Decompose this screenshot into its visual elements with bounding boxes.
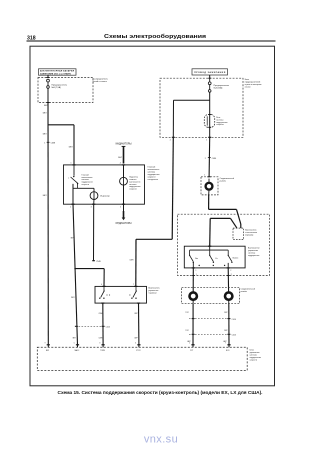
svg-text:БЕЛ: БЕЛ: [118, 157, 122, 159]
joint connector (dashed box with ring): [201, 177, 218, 195]
svg-text:ИНДИКАТОРЫ: ИНДИКАТОРЫ: [116, 142, 132, 145]
svg-text:(тормоза): (тормоза): [245, 234, 253, 236]
page header rule: [27, 40, 276, 42]
assembly exit ticks: [192, 275, 195, 277]
connector pair (dashed box): [182, 287, 240, 303]
fuse box No.8 (dashed, interior fuse/relay box): [38, 78, 93, 103]
svg-text:7: 7: [133, 284, 134, 286]
brake pedal switch (dashed box): [233, 228, 244, 239]
S3 switch COAST: [209, 255, 210, 256]
svg-text:ГОЛ: ГОЛ: [185, 330, 188, 332]
svg-text:1: 1: [196, 274, 197, 276]
battery feed label box (right): [192, 69, 228, 75]
svg-text:отсеке: отсеке: [245, 87, 251, 89]
S1 top terminal pin 4: [122, 164, 125, 166]
junction to control switch S2: [74, 268, 76, 270]
bus entry terminal 1: [47, 344, 50, 346]
svg-text:поддержания: поддержания: [248, 255, 259, 257]
connector C638 on feed wire: [47, 141, 50, 143]
svg-text:4: 4: [101, 284, 102, 286]
S2 switch right: [135, 286, 137, 290]
battery feed label box (left): [39, 69, 77, 75]
svg-text:2: 2: [170, 140, 171, 142]
bus entry terminal 5: [191, 344, 194, 346]
svg-text:№8 (7,5А): №8 (7,5А): [52, 86, 62, 89]
diagram outer frame: [30, 46, 275, 386]
connector line C414: [189, 318, 230, 320]
svg-text:ЗАЖИГАНИЕ (IG1 или START): ЗАЖИГАНИЕ (IG1 или START): [40, 72, 71, 75]
fuse box exit terminal: [47, 102, 50, 104]
svg-text:МАСС: МАСС: [75, 349, 81, 352]
bus entry terminal 3: [102, 344, 105, 346]
svg-text:Индикатор: Индикатор: [100, 195, 109, 197]
svg-text:ТОРМ: ТОРМ: [100, 350, 105, 352]
svg-text:ГОЛ: ГОЛ: [185, 312, 188, 314]
svg-text:2: 2: [189, 343, 190, 345]
svg-text:Схемы электрооборудования: Схемы электрооборудования: [104, 33, 206, 40]
svg-text:ВОЗ: ВОЗ: [226, 350, 229, 352]
bus entry terminal 2: [76, 344, 79, 346]
wires connector pair to control unit: [192, 304, 194, 345]
wires S3 to connector rings: [192, 268, 194, 293]
connector line C415: [76, 325, 104, 327]
svg-text:С414: С414: [232, 319, 236, 321]
svg-text:3: 3: [91, 206, 92, 208]
svg-text:ЗЕЛ: ЗЕЛ: [72, 337, 75, 339]
branch wire to main switch: [48, 124, 74, 126]
svg-text:цепей в салоне: цепей в салоне: [93, 80, 108, 83]
cruise control unit (dashed bus box): [37, 347, 247, 370]
S1 output wire down to control unit: [73, 204, 78, 345]
wire from label box to fuse box: [209, 75, 211, 78]
svg-text:ЗЕЛ: ЗЕЛ: [71, 297, 75, 299]
svg-text:2: 2: [70, 206, 71, 208]
svg-text:1: 1: [196, 270, 197, 272]
svg-text:9: 9: [45, 343, 46, 345]
svg-text:СИН: СИН: [129, 260, 134, 262]
svg-text:ПРОВОД ЗАЖИГАНИЯ: ПРОВОД ЗАЖИГАНИЯ: [194, 71, 226, 74]
main feed wire (left vertical): [47, 103, 49, 345]
fuse F4 (15A): [209, 78, 211, 82]
svg-text:5: 5: [120, 206, 121, 208]
svg-text:Схема 15. Система поддержания: Схема 15. Система поддержания скорости (…: [58, 390, 263, 396]
svg-text:СЕР: СЕР: [134, 337, 138, 339]
svg-text:СТОП: СТОП: [136, 350, 141, 352]
svg-text:УСТ: УСТ: [190, 350, 193, 352]
connector C486 tick: [208, 157, 211, 159]
branch wire inside fuse box: [209, 92, 211, 114]
svg-text:ИНДИКАТОРЫ: ИНДИКАТОРЫ: [116, 222, 132, 225]
svg-text:2: 2: [205, 158, 206, 160]
S1 bottom terminals: [71, 203, 74, 205]
svg-text:1: 1: [204, 175, 205, 177]
svg-text:6: 6: [135, 343, 136, 345]
fuse F4 terminal tick: [208, 77, 211, 79]
svg-text:СЕР: СЕР: [224, 312, 228, 314]
svg-text:С549: С549: [96, 261, 101, 263]
S2 bottom terminals: [101, 302, 104, 304]
svg-text:разъём: разъём: [220, 181, 227, 183]
wire B: brake switch to control switches: [210, 217, 230, 219]
S2 top terminals: [102, 285, 105, 287]
svg-text:С486: С486: [212, 158, 216, 160]
svg-text:2: 2: [231, 274, 232, 276]
svg-text:vnx.su: vnx.su: [144, 434, 178, 446]
connector line C413: [189, 333, 230, 335]
svg-text:скорости: скорости: [250, 360, 257, 362]
S2 switch left: [103, 286, 105, 290]
svg-text:1: 1: [44, 143, 45, 145]
svg-text:скорости: скорости: [82, 184, 89, 186]
wire from relay to stop switch connector: [208, 137, 211, 177]
wire A: connector to stop lamp switch: [208, 195, 210, 210]
cruise relay coil (dashed capsule): [204, 115, 214, 128]
indicators output arrow (below S1): [123, 204, 125, 211]
S3 bottom contacts row: [199, 265, 200, 266]
main cruise switch box S1: [64, 165, 145, 204]
svg-text:БЕЛ: БЕЛ: [43, 134, 48, 136]
S1 main switch contact: [73, 165, 75, 176]
S2 output wires to control unit: [102, 303, 104, 345]
S1 wire switch to lamp: [77, 184, 79, 189]
S1 indicator lamp: [93, 188, 95, 192]
wire from battery label to fuse box: [47, 75, 49, 78]
svg-text:С638: С638: [51, 143, 56, 145]
svg-text:Вкл: Вкл: [195, 258, 198, 260]
S3 switch SET: [189, 255, 190, 256]
svg-text:Возобн: Возобн: [233, 257, 239, 259]
bus entry terminal 6: [227, 344, 230, 346]
svg-text:скорости: скорости: [216, 124, 223, 126]
svg-text:и подсветка: и подсветка: [148, 179, 159, 181]
fuse F8 terminal tick: [47, 77, 50, 79]
svg-text:3: 3: [99, 343, 100, 345]
S3 internal bus: [209, 246, 211, 250]
connector ring right: [225, 292, 232, 299]
svg-text:5: 5: [74, 343, 75, 345]
long wire from fuse box to control switch S2: [172, 137, 173, 239]
svg-text:БЕЛ: БЕЛ: [69, 146, 74, 148]
svg-text:СЕР: СЕР: [134, 313, 138, 315]
S3 top terminal: [208, 245, 211, 247]
svg-text:скорости: скорости: [129, 189, 136, 191]
ground wire from S1 lamp: [93, 204, 95, 260]
svg-text:БЕЛ: БЕЛ: [43, 113, 48, 115]
svg-text:тормозом: тормозом: [148, 293, 157, 295]
brake pedal assembly (dashed): [178, 214, 270, 275]
S3 bottom terminals: [192, 262, 194, 268]
fuse F8 (7.5A): [47, 79, 50, 82]
svg-text:1: 1: [206, 140, 207, 142]
underhood fuse/relay box (dashed): [160, 78, 243, 137]
svg-text:Уст: Уст: [215, 258, 218, 260]
svg-text:4: 4: [120, 163, 121, 165]
S3 switch RESUME: [228, 255, 229, 256]
control switch S2 (left): [95, 286, 147, 303]
svg-text:2: 2: [230, 270, 231, 272]
svg-text:разъём: разъём: [241, 291, 248, 293]
svg-text:ВКЛ: ВКЛ: [46, 350, 49, 352]
S1 illumination lamp: [123, 165, 125, 177]
svg-text:х: х: [68, 177, 69, 179]
svg-text:С415: С415: [106, 327, 110, 329]
svg-text:С413: С413: [232, 335, 236, 337]
joint connector ring: [206, 183, 213, 190]
svg-text:1: 1: [71, 163, 72, 165]
connector ring left: [190, 292, 197, 299]
S1 top terminal pin 1: [72, 164, 75, 166]
svg-text:СИН: СИН: [99, 337, 103, 339]
fuse box exit terminals: [172, 136, 175, 138]
control switches box S3: [184, 246, 245, 268]
ground terminal C549: [92, 260, 95, 261]
bus entry terminal 4: [137, 344, 140, 346]
svg-text:СЕР: СЕР: [224, 330, 228, 332]
relay output wire: [209, 127, 211, 137]
svg-text:АККУМУЛЯТОРНАЯ БАТАРЕЯ: АККУМУЛЯТОРНАЯ БАТАРЕЯ: [40, 70, 75, 73]
svg-text:БЕЛ: БЕЛ: [43, 195, 48, 197]
svg-text:№4 (15А): №4 (15А): [214, 87, 223, 90]
svg-text:7: 7: [225, 343, 226, 345]
